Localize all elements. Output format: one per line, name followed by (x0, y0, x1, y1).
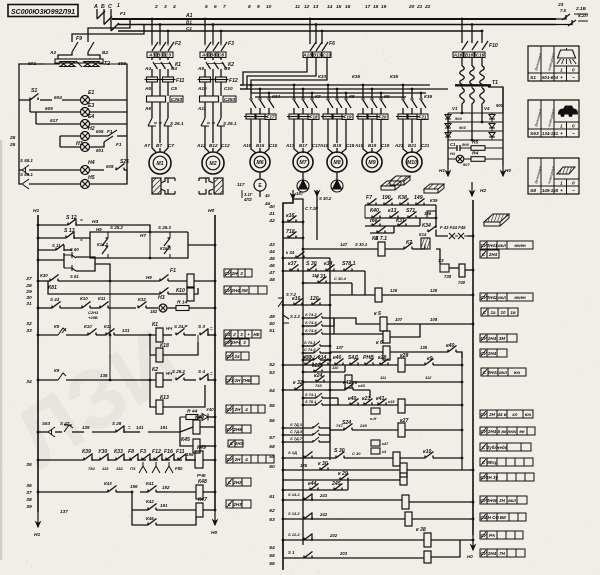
svg-text:30: 30 (26, 295, 32, 301)
svg-text:С 30: С 30 (352, 451, 361, 456)
svg-text:К33: К33 (318, 74, 326, 79)
relay coil K10 (187, 287, 194, 301)
svg-text:1: 1 (560, 181, 563, 186)
svg-text:S 1: S 1 (288, 550, 295, 555)
svg-text:8: 8 (248, 4, 251, 10)
svg-text:601-604: 601-604 (542, 75, 559, 80)
svg-text:S 26.2: S 26.2 (172, 369, 185, 374)
svg-text:К40: К40 (370, 208, 379, 214)
annotation box y513 (480, 513, 487, 521)
svg-text:вкл: вкл (508, 498, 516, 503)
svg-text:к44: к44 (308, 481, 316, 487)
svg-text:А21: А21 (394, 143, 404, 148)
svg-text:Н2: Н2 (480, 188, 486, 193)
rung 34 K2 coil (38, 379, 58, 381)
svg-text:3М: 3М (499, 336, 505, 341)
svg-text:S 30: S 30 (306, 261, 317, 267)
dc rail left (447, 113, 449, 166)
svg-text:120: 120 (310, 296, 319, 302)
annotation box y293 (480, 293, 487, 301)
svg-text:СУ: СУ (480, 429, 487, 434)
coil K58 (393, 452, 400, 466)
top cluster right vertical (435, 205, 437, 228)
svg-text:К34: К34 (272, 94, 280, 99)
svg-text:М1: М1 (156, 161, 163, 167)
svg-text:ючен: ючен (514, 295, 526, 300)
extra coil rung y382 (303, 381, 345, 383)
svg-text:н0: н0 (467, 554, 473, 560)
contact S7.1 mid (370, 232, 394, 234)
svg-text:F10: F10 (489, 43, 498, 49)
svg-text:195: 195 (186, 452, 194, 457)
svg-text:К13: К13 (160, 395, 169, 401)
svg-text:Н7: Н7 (140, 233, 146, 238)
М8 drop wires (327, 85, 329, 98)
svg-text:к31: к31 (303, 355, 311, 361)
H0 rail arrow (502, 166, 504, 176)
extra rung y303 (283, 304, 330, 306)
limit switch S 25.1 (201, 118, 209, 126)
svg-text:58: 58 (269, 444, 275, 450)
svg-text:182: 182 (150, 309, 158, 314)
rung 43 coil K4 (303, 248, 378, 250)
svg-text:к37: к37 (288, 261, 297, 267)
svg-text:S 7.2: S 7.2 (286, 292, 297, 297)
svg-text:2Н41: 2Н41 (486, 243, 498, 248)
svg-text:=: = (80, 218, 83, 223)
svg-text:В16: В16 (465, 52, 474, 57)
motor М1 (149, 152, 171, 174)
svg-text:Н0: Н0 (505, 168, 511, 173)
svg-text:141: 141 (136, 425, 144, 430)
clock symbol under M6 (254, 179, 266, 191)
svg-text:S 25.2: S 25.2 (110, 225, 123, 230)
svg-text:С7: С7 (168, 143, 174, 148)
svg-text:46: 46 (268, 263, 275, 269)
rung 36 K43 K41 K48 coil (38, 491, 108, 493)
svg-text:те: те (370, 218, 378, 224)
rung S10 S61 (38, 259, 64, 261)
right side resistor and relay (440, 264, 449, 272)
svg-text:F80: F80 (175, 466, 183, 471)
contactor К8 (327, 98, 329, 100)
svg-text:54: 54 (269, 388, 275, 394)
coil feed 61 (409, 501, 473, 503)
svg-text:к40: к40 (333, 355, 341, 361)
svg-text:СУ: СУ (226, 407, 233, 412)
svg-text:F12: F12 (229, 78, 238, 84)
svg-text:А17: А17 (285, 143, 295, 148)
svg-text:906: 906 (462, 142, 469, 147)
svg-text:S 2.2: S 2.2 (290, 314, 301, 319)
diode V2 (445, 124, 451, 129)
motor М2 (202, 152, 224, 174)
annotation box y443 (480, 443, 487, 451)
svg-text:Н2: Н2 (88, 126, 95, 132)
svg-text:к 6: к 6 (376, 340, 383, 346)
node 606 drop (188, 244, 215, 246)
lamp E3 (30, 111, 80, 113)
fuses F11 (151, 72, 153, 77)
svg-text:10: 10 (266, 4, 272, 10)
motor М7 (293, 152, 313, 172)
terminal boxes А16 В16 С16 (453, 52, 463, 58)
svg-text:4: 4 (244, 407, 248, 412)
rung 35 thermal contacts row (38, 459, 84, 461)
svg-text:1а: 1а (491, 310, 496, 315)
svg-text:187: 187 (296, 191, 304, 196)
svg-text:R5: R5 (472, 140, 479, 146)
left rail branch x303 (293, 199, 303, 545)
fuse F17 (246, 114, 256, 119)
svg-text:=: = (128, 425, 131, 430)
svg-text:S 7Д.3: S 7Д.3 (290, 422, 303, 427)
svg-text:190: 190 (382, 195, 391, 201)
svg-text:К48: К48 (198, 479, 207, 485)
svg-text:К35: К35 (390, 74, 398, 79)
svg-text:51: 51 (269, 328, 275, 334)
contactor К9 (362, 98, 364, 100)
coil K27 (398, 423, 405, 437)
svg-text:РА: РА (489, 533, 495, 538)
svg-text:Н3: Н3 (158, 295, 165, 301)
fuses F12 (204, 72, 206, 77)
relay coil F1 (187, 274, 194, 288)
coil bottom 2 (424, 551, 431, 563)
motor М6 (250, 152, 270, 172)
svg-text:В2: В2 (102, 50, 108, 56)
svg-text:20: 20 (408, 4, 415, 10)
resistor R4 (471, 157, 485, 162)
svg-text:601: 601 (96, 148, 104, 153)
mid cluster S74 stack (303, 317, 316, 319)
svg-text:СУ: СУ (480, 533, 487, 538)
relay box K7 small (427, 211, 436, 218)
svg-text:0: 0 (572, 124, 575, 129)
H1 rail arrow (447, 166, 449, 176)
svg-text:131: 131 (122, 328, 130, 333)
lighting box right rail (122, 64, 127, 180)
svg-text:К35: К35 (352, 74, 360, 79)
svg-text:С263: С263 (171, 97, 183, 102)
svg-text:718: 718 (286, 229, 295, 235)
legend table S8 (528, 158, 579, 194)
svg-text:64: 64 (269, 545, 275, 551)
annotation box y410 (480, 410, 487, 418)
svg-text:108: 108 (430, 317, 438, 322)
svg-text:137: 137 (60, 509, 68, 514)
svg-text:С4: С4 (225, 332, 231, 337)
svg-text:22: 22 (424, 4, 431, 10)
vertical link from rung 31 to 34 (109, 281, 111, 380)
contactor К34 (250, 98, 252, 100)
svg-text:33: 33 (26, 328, 32, 334)
dc rail right (502, 87, 504, 166)
svg-text:110: 110 (332, 365, 339, 370)
bridge row 4 (448, 139, 503, 141)
time relay coil (459, 264, 465, 277)
svg-text:К36: К36 (424, 94, 432, 99)
tool symbol under M2 (199, 178, 213, 194)
fuse F21 (398, 114, 408, 119)
svg-text:F9: F9 (76, 36, 82, 42)
contactor К36 (402, 98, 404, 100)
main switch F1 (97, 11, 119, 31)
svg-text:СУ: СУ (226, 457, 233, 462)
svg-text:к40: к40 (348, 396, 356, 402)
svg-text:2Н4: 2Н4 (230, 288, 240, 293)
svg-text:к40: к40 (446, 343, 454, 349)
svg-text:2Н4: 2Н4 (488, 252, 498, 257)
svg-text:А4: А4 (144, 66, 151, 71)
rung 66 (283, 557, 320, 559)
svg-text:К10: К10 (80, 296, 88, 301)
resistor R5 (471, 146, 485, 151)
svg-text:У40: У40 (206, 407, 214, 412)
svg-text:2Н4: 2Н4 (487, 351, 497, 356)
svg-text:Н1: Н1 (439, 168, 445, 173)
rung 53 coil K6 (330, 351, 383, 353)
svg-text:0: 0 (572, 68, 575, 73)
svg-text:F17: F17 (266, 114, 274, 119)
interlock network S25.2 K14.2 (90, 238, 188, 258)
diode V3 (445, 133, 451, 138)
svg-text:Н1: Н1 (33, 208, 40, 214)
svg-text:S 13.2: S 13.2 (288, 511, 300, 516)
svg-text:К34: К34 (422, 223, 431, 229)
rung K30 F1 coil (38, 280, 50, 282)
bottom rungs 64-66 (283, 539, 320, 541)
svg-text:50: 50 (269, 321, 275, 327)
rung S11 (38, 249, 56, 251)
svg-text:S 4: S 4 (198, 369, 205, 374)
svg-text:242: 242 (319, 512, 328, 517)
svg-text:2Н: 2Н (234, 457, 241, 462)
svg-text:к 26: к 26 (349, 380, 358, 385)
diode V1 (445, 115, 451, 120)
svg-text:−: − (572, 76, 575, 81)
svg-text:к-Н: к-Н (370, 416, 376, 421)
svg-text:=: = (210, 371, 213, 376)
thermal relay С263 (147, 96, 166, 102)
svg-text:РЧЕ: РЧЕ (197, 473, 206, 478)
relay coil K18 (150, 335, 156, 355)
svg-text:А13: А13 (302, 52, 312, 57)
contact K40 right (448, 346, 457, 353)
svg-text:СУ: СУ (224, 271, 231, 276)
contactor coil K2 (156, 373, 163, 387)
lamp E1 (81, 96, 90, 105)
svg-text:S21: S21 (120, 159, 129, 165)
svg-text:49: 49 (268, 314, 275, 320)
branch М2 drop wires (204, 19, 206, 44)
svg-text:А3: А3 (148, 52, 155, 57)
distribution bus lines (240, 84, 430, 86)
interposing box K-H (371, 408, 380, 414)
svg-text:К8: К8 (349, 94, 355, 99)
svg-text:135: 135 (300, 463, 308, 468)
svg-text:192: 192 (162, 485, 170, 490)
svg-text:С9: С9 (224, 66, 230, 71)
relay coil K45 (180, 432, 193, 446)
rung 58 (283, 457, 336, 459)
svg-text:907: 907 (463, 162, 470, 167)
svg-text:Е4: Е4 (88, 114, 94, 120)
svg-text:к28: к28 (400, 353, 408, 359)
svg-text:К32: К32 (138, 297, 146, 302)
magnetic separator symbol (381, 181, 401, 186)
bridge row 2 (448, 121, 503, 123)
svg-text:28: 28 (25, 283, 32, 289)
svg-text:48: 48 (268, 277, 275, 283)
svg-text:2Н4: 2Н4 (487, 336, 497, 341)
svg-text:S24: S24 (342, 420, 351, 426)
svg-text:617: 617 (50, 118, 58, 123)
svg-text:47: 47 (268, 270, 275, 276)
annotation box y458 (480, 458, 487, 466)
svg-text:F3: F3 (140, 449, 146, 455)
svg-text:5: 5 (205, 4, 208, 10)
rung K10 coil (48, 281, 160, 294)
svg-text:128: 128 (430, 288, 438, 293)
svg-text:А10: А10 (197, 86, 207, 91)
hatched plate icon (484, 214, 509, 222)
svg-text:10: 10 (501, 310, 506, 315)
svg-text:В15: В15 (256, 143, 265, 148)
separator box under M10 (424, 184, 444, 189)
svg-text:F1: F1 (116, 142, 122, 147)
svg-text:32: 32 (26, 321, 32, 327)
lamp H4 (29, 169, 80, 171)
svg-text:К4: К4 (372, 236, 378, 242)
svg-text:К30: К30 (40, 273, 48, 278)
svg-text:С 30.4: С 30.4 (334, 276, 347, 281)
svg-text:к24: к24 (314, 373, 322, 379)
svg-text:к47: к47 (382, 441, 389, 446)
svg-text:Н1: Н1 (450, 151, 456, 156)
wires to motor (204, 126, 206, 143)
annotation box y473 (480, 473, 487, 481)
lamp H2 (60, 135, 80, 137)
svg-text:F20: F20 (378, 114, 386, 119)
svg-text:М10: М10 (407, 160, 417, 166)
svg-text:191: 191 (160, 425, 168, 430)
sub rungs K42 K46 (132, 492, 148, 525)
svg-text:В1: В1 (186, 20, 192, 25)
svg-text:19: 19 (381, 4, 387, 10)
svg-text:А18: А18 (319, 143, 329, 148)
svg-text:1в: 1в (510, 310, 515, 315)
bridge input wires (461, 104, 463, 114)
svg-text:К33: К33 (114, 449, 123, 455)
top cluster rung2 (365, 217, 436, 219)
transformer T2 winding (60, 62, 67, 67)
svg-text:К11: К11 (98, 296, 106, 301)
svg-text:5 вк: 5 вк (498, 429, 507, 434)
svg-text:26: 26 (9, 142, 16, 148)
switch S21 (116, 164, 125, 171)
svg-text:К11: К11 (104, 324, 112, 329)
svg-text:ВЕ: ВЕ (500, 515, 507, 520)
svg-text:С10: С10 (224, 86, 233, 91)
top cluster rung1 (365, 204, 436, 206)
fuse F20 (358, 114, 368, 119)
svg-text:1: 1 (560, 124, 563, 129)
rung 47 (303, 282, 352, 284)
svg-text:К46: К46 (146, 516, 154, 521)
rung K31 S78.1 (283, 257, 330, 259)
svg-text:S 74.1: S 74.1 (305, 392, 316, 397)
rung K9 K1 coil line32 (38, 334, 58, 336)
svg-text:S8: S8 (530, 188, 536, 194)
svg-text:202: 202 (329, 533, 338, 538)
svg-text:+: + (560, 189, 563, 194)
svg-text:М7: М7 (299, 160, 307, 166)
svg-text:S 26.1: S 26.1 (170, 121, 184, 126)
svg-text:137: 137 (336, 345, 344, 350)
svg-text:н43: н43 (358, 383, 366, 388)
svg-text:Н9: Н9 (146, 275, 152, 280)
svg-text:4г: 4г (264, 193, 270, 198)
svg-text:В3: В3 (157, 52, 163, 57)
svg-text:2Н: 2Н (498, 498, 505, 503)
svg-text:Н3: Н3 (92, 219, 99, 225)
svg-text:А6: А6 (144, 106, 151, 111)
svg-text:+: + (247, 332, 250, 337)
H2 tap arrow (471, 182, 473, 196)
top cluster rung3 (365, 225, 420, 227)
svg-text:К31: К31 (396, 218, 405, 224)
svg-text:к28: к28 (378, 355, 386, 361)
svg-text:СУ: СУ (480, 336, 487, 341)
svg-text:К49: К49 (197, 445, 206, 451)
svg-text:УЗ: УЗ (438, 258, 444, 263)
svg-text:к21: к21 (362, 396, 370, 402)
svg-text:2Н 3у: 2Н 3у (485, 475, 498, 480)
svg-text:243: 243 (319, 493, 328, 498)
svg-text:Е3: Е3 (88, 103, 94, 109)
svg-text:138: 138 (420, 345, 428, 350)
relay coil K47 (196, 503, 203, 517)
svg-text:В8: В8 (210, 52, 216, 57)
rung 62 S13.2 (283, 518, 340, 520)
transformer T1 primary windings (461, 58, 463, 67)
rung 59 60 long rails (283, 469, 400, 471)
rung 61 S14.2 (283, 499, 340, 501)
svg-text:С21: С21 (421, 143, 430, 148)
svg-text:F 43 F44 F45: F 43 F44 F45 (440, 225, 466, 230)
svg-text:М6: М6 (256, 160, 263, 166)
svg-text:11: 11 (295, 4, 300, 10)
rung 57 S7D stack (283, 427, 313, 429)
svg-text:к 5: к 5 (374, 311, 381, 317)
switch F3 (205, 42, 227, 51)
svg-text:Н4: Н4 (88, 160, 95, 166)
svg-text:к13: к13 (388, 208, 396, 214)
svg-text:56: 56 (269, 418, 275, 424)
svg-text:2Н3: 2Н3 (232, 502, 242, 507)
svg-text:52: 52 (269, 362, 275, 368)
svg-text:К18: К18 (160, 343, 169, 349)
svg-text:С3: С3 (165, 52, 171, 57)
svg-text:С1: С1 (186, 26, 192, 31)
svg-text:38: 38 (26, 497, 32, 503)
svg-text:27: 27 (25, 276, 32, 282)
svg-text:К9: К9 (54, 368, 60, 373)
svg-text:4П2: 4П2 (243, 197, 252, 202)
svg-text:14: 14 (327, 4, 333, 10)
fuse F19 (323, 114, 333, 119)
